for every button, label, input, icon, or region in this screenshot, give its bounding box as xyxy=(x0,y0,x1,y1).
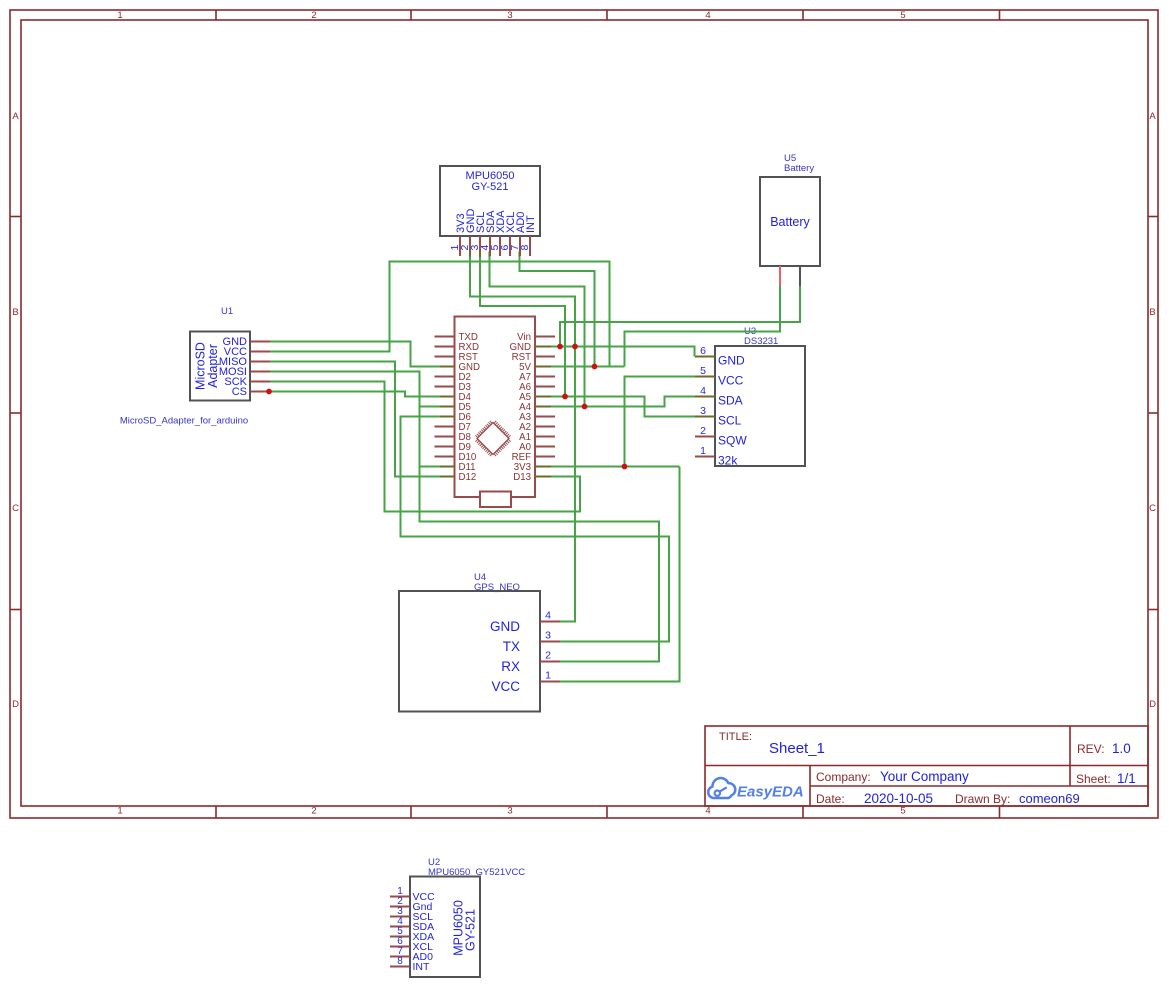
svg-text:4: 4 xyxy=(705,806,710,817)
svg-text:B: B xyxy=(1149,307,1155,318)
title block xyxy=(705,726,1148,806)
wire: branch to D5 xyxy=(420,406,441,408)
Arduino chip diamond icon xyxy=(475,421,510,456)
svg-text:GND: GND xyxy=(490,619,520,634)
svg-text:Drawn By:: Drawn By: xyxy=(955,792,1010,806)
svg-text:comeon69: comeon69 xyxy=(1019,791,1080,806)
junction at CS xyxy=(266,389,272,395)
Arduino right pin A4 xyxy=(519,402,555,413)
Arduino left pin D7 xyxy=(435,422,471,433)
svg-text:MicroSD_Adapter_for_arduino: MicroSD_Adapter_for_arduino xyxy=(120,416,248,427)
U2 pin 3 SCL xyxy=(390,906,433,923)
svg-text:1/1: 1/1 xyxy=(1117,771,1136,786)
wire: MPU SDA pin4 to A4 xyxy=(490,256,585,407)
svg-text:REV:: REV: xyxy=(1077,742,1105,756)
svg-text:D: D xyxy=(1149,699,1156,710)
svg-text:Battery: Battery xyxy=(770,215,810,229)
U1 pin MOSI xyxy=(219,366,270,378)
MPU6050(top) pin 8 INT xyxy=(519,215,537,256)
svg-text:EasyEDA: EasyEDA xyxy=(737,784,804,801)
svg-text:D13: D13 xyxy=(513,472,531,483)
U2 pin 4 SDA xyxy=(390,916,434,933)
U2 pin 2 Gnd xyxy=(390,896,433,913)
svg-text:5: 5 xyxy=(900,806,905,817)
U3 pin 6 GND xyxy=(695,345,745,368)
Arduino Nano module xyxy=(455,317,536,508)
U2 pin 8 INT xyxy=(390,956,430,973)
svg-text:5: 5 xyxy=(700,365,706,377)
svg-text:3: 3 xyxy=(507,10,512,21)
svg-text:D: D xyxy=(12,699,19,710)
svg-text:SQW: SQW xyxy=(718,434,747,448)
svg-text:8: 8 xyxy=(397,956,403,967)
U1 pin GND xyxy=(223,336,270,348)
Arduino right pin 5V xyxy=(519,362,555,373)
U3 pin 4 SDA xyxy=(695,385,743,408)
Arduino left pin RST xyxy=(435,352,478,363)
svg-text:SDA: SDA xyxy=(718,394,743,408)
Arduino left pin D6 xyxy=(435,412,471,423)
U2 pin 7 AD0 xyxy=(390,946,433,963)
wire: branch to D11 xyxy=(420,466,441,468)
wire: Arduino GND to DS3231 GND xyxy=(551,347,695,357)
MPU6050(top) pin 2 GND xyxy=(459,209,477,257)
svg-text:CS: CS xyxy=(232,386,247,398)
svg-text:4: 4 xyxy=(705,10,710,21)
module U2 MPU6050_GY521VCC xyxy=(410,857,525,977)
svg-text:INT: INT xyxy=(525,215,537,233)
svg-text:Sheet_1: Sheet_1 xyxy=(769,740,825,757)
Arduino left pin RXD xyxy=(435,342,479,353)
Arduino left pin D2 xyxy=(435,372,471,383)
Arduino left pin D8 xyxy=(435,432,471,443)
U4 pin 4 GND xyxy=(490,610,560,635)
svg-text:4: 4 xyxy=(700,385,706,397)
svg-text:1: 1 xyxy=(545,670,551,682)
wire: Battery - to GND bus xyxy=(560,286,800,347)
MPU6050(top) pin 4 SDA xyxy=(479,210,497,256)
svg-text:SCL: SCL xyxy=(718,414,742,428)
svg-text:2020-10-05: 2020-10-05 xyxy=(864,791,933,806)
svg-text:3: 3 xyxy=(507,806,512,817)
svg-text:4: 4 xyxy=(545,610,551,622)
U2 pin 6 XCL xyxy=(390,936,433,953)
U1 pin VCC xyxy=(224,346,270,358)
svg-text:2: 2 xyxy=(311,10,316,21)
wire: MOSI to D11 trunk xyxy=(270,372,659,662)
svg-text:32k: 32k xyxy=(718,454,738,468)
wire: A4 to DS3231 SDA xyxy=(551,397,695,407)
Arduino left pin D11 xyxy=(435,462,476,473)
MPU6050(top) pin 1 3V3 xyxy=(449,213,467,256)
wire: DS3231 VCC to 3V3 xyxy=(625,377,696,467)
svg-text:INT: INT xyxy=(413,961,431,973)
svg-text:5: 5 xyxy=(900,10,905,21)
EasyEDA logo xyxy=(708,778,803,800)
Arduino right pin A1 xyxy=(519,432,555,443)
wire: CS to D4 xyxy=(270,392,440,397)
svg-text:1: 1 xyxy=(117,806,122,817)
U3 pin 5 VCC xyxy=(695,365,744,388)
svg-text:6: 6 xyxy=(700,345,706,357)
svg-text:1: 1 xyxy=(117,10,122,21)
svg-text:VCC: VCC xyxy=(491,679,520,694)
U1 pin SCK xyxy=(224,376,270,388)
Arduino right pin REF xyxy=(512,452,555,463)
Arduino right pin A3 xyxy=(519,412,555,423)
Arduino left pin D4 xyxy=(435,392,472,403)
module MPU6050 GY-521 (top) xyxy=(440,166,540,236)
svg-text:A: A xyxy=(1149,111,1156,122)
svg-text:GY-521: GY-521 xyxy=(464,909,478,951)
Arduino left pin D12 xyxy=(435,472,477,483)
pin overlap shading xyxy=(440,252,715,477)
svg-text:2: 2 xyxy=(700,425,706,437)
wire: D6 to GPS TX xyxy=(401,417,670,642)
svg-text:RX: RX xyxy=(501,659,520,674)
svg-text:VCC: VCC xyxy=(718,374,744,388)
Arduino right pin A7 xyxy=(519,372,555,383)
svg-text:D12: D12 xyxy=(459,472,477,483)
GPS module GPS_NEO U4 xyxy=(399,572,540,712)
svg-text:U1: U1 xyxy=(221,306,233,317)
wire: Battery + to 5V xyxy=(625,286,781,367)
Arduino right pin A2 xyxy=(519,422,555,433)
battery U5 xyxy=(760,153,820,266)
U4 pin 3 TX xyxy=(503,630,560,655)
Arduino left pin GND xyxy=(435,362,481,373)
svg-text:TX: TX xyxy=(503,639,520,654)
wire: MPU AD0 pin7 to 5V xyxy=(520,256,595,367)
U1 pin MISO xyxy=(219,356,270,368)
svg-text:3: 3 xyxy=(545,630,551,642)
Arduino left pin D10 xyxy=(435,452,477,463)
svg-text:TITLE:: TITLE: xyxy=(719,731,752,743)
wire: 3V3 down to GPS VCC xyxy=(560,467,680,682)
Arduino right pin RST xyxy=(512,352,555,363)
Arduino right pin D13 xyxy=(513,472,555,483)
svg-text:8: 8 xyxy=(519,245,531,251)
U4 pin 1 VCC xyxy=(491,670,560,695)
MPU6050(top) pin 6 XCL xyxy=(499,212,517,256)
battery U5 pin + xyxy=(779,266,781,286)
svg-text:GY-521: GY-521 xyxy=(472,181,509,193)
RTC DS3231 U3 xyxy=(715,326,805,466)
U1 pin CS xyxy=(232,386,270,398)
svg-text:Sheet:: Sheet: xyxy=(1076,772,1111,786)
svg-text:Date:: Date: xyxy=(816,792,845,806)
svg-text:1.0: 1.0 xyxy=(1112,741,1131,756)
junction A5 / MPU SCL xyxy=(562,394,568,400)
svg-text:A: A xyxy=(12,111,19,122)
svg-text:3: 3 xyxy=(700,405,706,417)
svg-text:2: 2 xyxy=(311,806,316,817)
Arduino left pin D3 xyxy=(435,382,471,393)
U2 pin 1 VCC xyxy=(390,886,435,903)
wire: MicroSD GND to Arduino GND xyxy=(270,342,440,367)
junction 3V3 / DS3231 VCC xyxy=(622,464,628,470)
Arduino right pin A0 xyxy=(519,442,555,453)
wire: A5 to DS3231 SCL xyxy=(551,397,695,417)
svg-text:B: B xyxy=(12,307,18,318)
wire: Arduino 5V rail xyxy=(551,366,625,368)
junction 5V / AD0 xyxy=(592,364,598,370)
MPU6050(top) pin 5 XDA xyxy=(489,210,507,256)
junction GND bus / MPU GND riser xyxy=(572,344,578,350)
wire: SCK to D13 xyxy=(270,382,580,512)
svg-text:2: 2 xyxy=(545,650,551,662)
Arduino right pin A5 xyxy=(519,392,555,403)
wire: MPU GND pin2 down to GPS GND xyxy=(470,256,575,622)
wire: 3V3 rail xyxy=(551,466,680,468)
U2 pin 5 XDA xyxy=(390,926,434,943)
MicroSD adapter U1 xyxy=(190,306,250,401)
Arduino left pin TXD xyxy=(435,332,478,343)
wire: MPU SCL pin3 to A5 xyxy=(480,256,565,397)
U3 pin 3 SCL xyxy=(695,405,742,428)
Arduino left pin D9 xyxy=(435,442,471,453)
U3 pin 2 SQW xyxy=(695,425,747,448)
junction A4 / MPU SDA xyxy=(582,404,588,410)
Arduino right pin Vin xyxy=(517,332,555,343)
svg-text:C: C xyxy=(1149,503,1156,514)
Arduino right pin 3V3 xyxy=(514,462,555,473)
svg-text:Company:: Company: xyxy=(816,770,871,784)
MPU6050(top) pin 3 SCL xyxy=(469,212,487,256)
junction GND bus / battery xyxy=(557,344,563,350)
svg-text:Your Company: Your Company xyxy=(880,769,969,784)
svg-text:C: C xyxy=(12,503,19,514)
U3 pin 1 32k xyxy=(695,445,738,468)
U4 pin 2 RX xyxy=(501,650,560,675)
svg-text:1: 1 xyxy=(700,445,706,457)
Arduino right pin A6 xyxy=(519,382,555,393)
battery U5 pin - xyxy=(799,266,801,286)
svg-text:GND: GND xyxy=(718,354,745,368)
wire: MicroSD VCC riser to 5V bus xyxy=(270,262,610,367)
MPU6050(top) pin 7 AD0 xyxy=(509,212,527,256)
Arduino right pin GND xyxy=(509,342,555,353)
svg-text:Battery: Battery xyxy=(784,163,814,174)
Arduino left pin D5 xyxy=(435,402,471,413)
wire: MISO to D12 xyxy=(270,362,440,477)
